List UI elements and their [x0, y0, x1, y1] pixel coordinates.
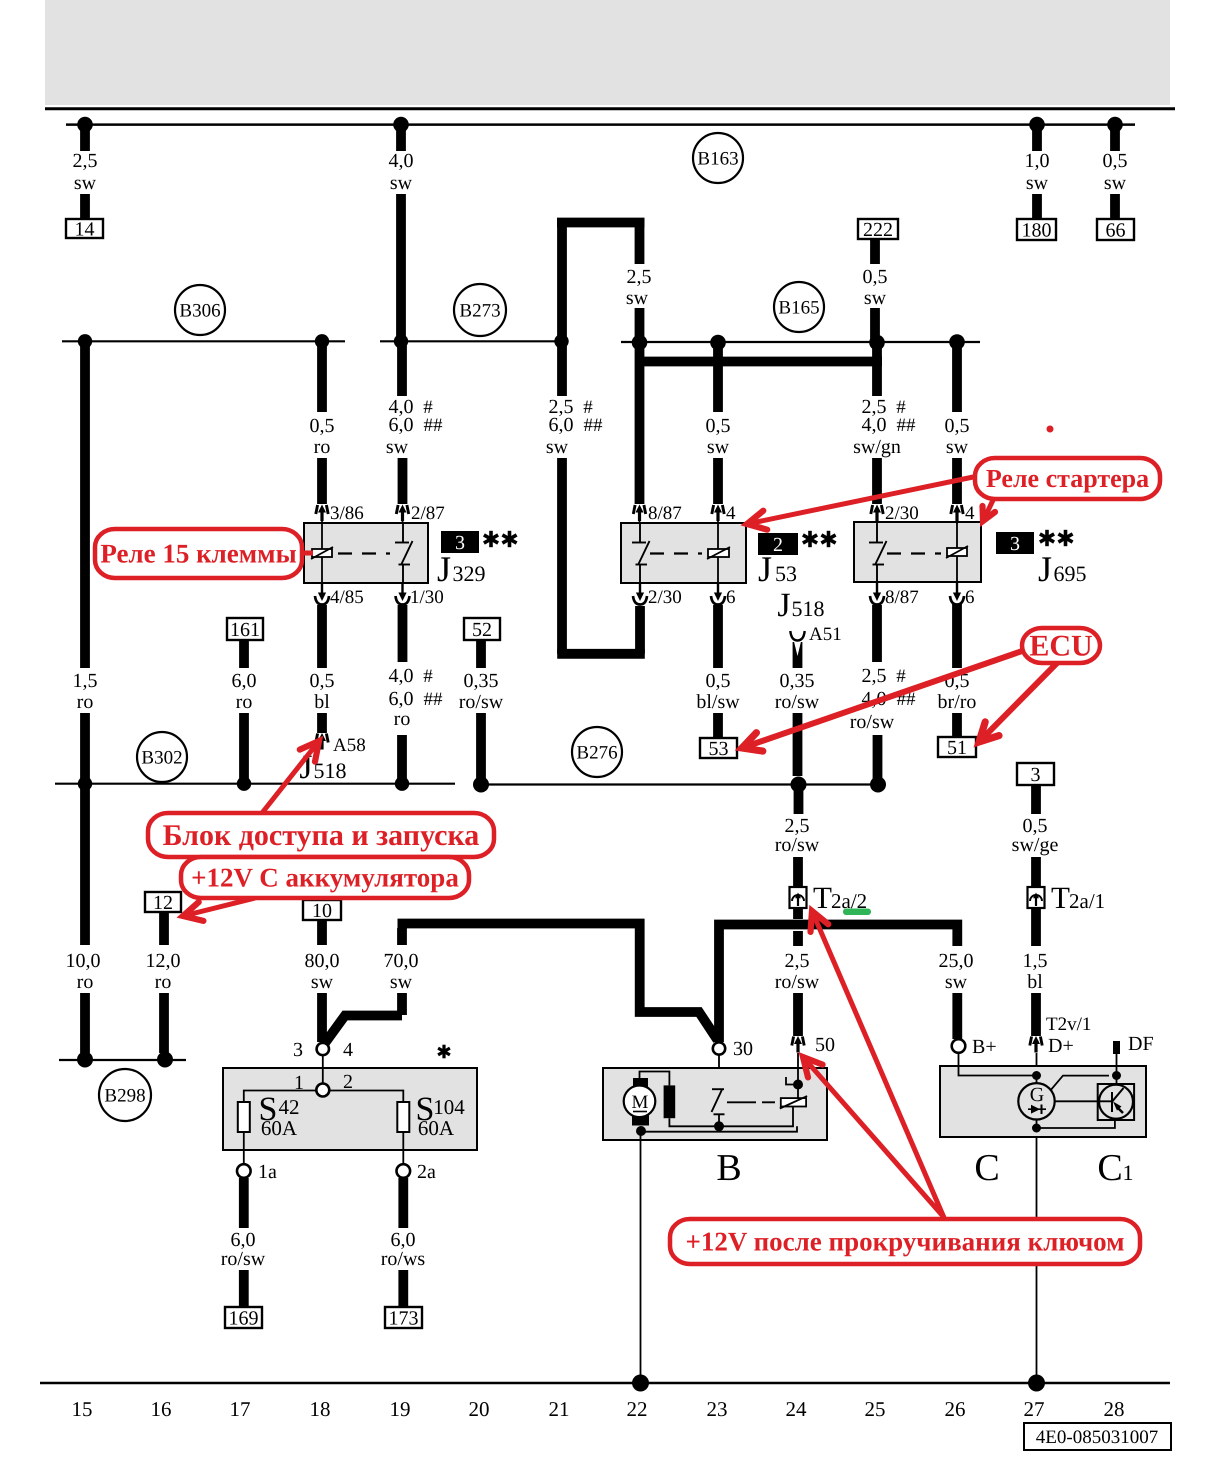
junction x718/B165 [710, 335, 726, 351]
svg-text:0,5: 0,5 [706, 415, 731, 437]
wire 0,5 sw from terminal 222 to node B165 [870, 239, 880, 264]
svg-text:2/30: 2/30 [885, 503, 919, 524]
junction x322/B306 [315, 334, 329, 348]
svg-text:ro: ro [77, 971, 94, 993]
svg-text:1,0: 1,0 [1025, 150, 1050, 172]
svg-text:2a: 2a [417, 1161, 436, 1183]
terminal 10 [303, 900, 341, 920]
node B276 [572, 727, 622, 777]
junction starter ground [632, 1375, 649, 1392]
svg-text:60A: 60A [261, 1116, 298, 1140]
svg-text:sw: sw [546, 436, 569, 458]
annotation ECU [742, 650, 1025, 751]
svg-text:50: 50 [815, 1034, 835, 1056]
node B306 [175, 285, 225, 335]
svg-text:sw: sw [1104, 172, 1127, 194]
ground rail [40, 1382, 1170, 1385]
svg-text:ro/sw: ro/sw [775, 691, 820, 713]
annotation +12V after key crank [811, 911, 944, 1217]
svg-text:sw: sw [311, 971, 334, 993]
pin 1/30 [396, 583, 410, 605]
svg-text:0,35: 0,35 [464, 670, 499, 692]
terminal 161 [227, 618, 263, 640]
svg-text:14: 14 [75, 218, 95, 240]
wire 0,35 ro/sw from A51 to node B276 [793, 642, 803, 668]
svg-text:3: 3 [293, 1039, 303, 1061]
svg-text:T: T [813, 880, 832, 915]
svg-text:60A: 60A [418, 1116, 455, 1140]
terminal 3 [1017, 763, 1054, 785]
svg-text:B273: B273 [459, 300, 500, 321]
svg-text:ro: ro [314, 436, 331, 458]
svg-text:17: 17 [230, 1397, 251, 1421]
svg-text:4/85: 4/85 [330, 587, 364, 608]
pin 4 [712, 505, 724, 522]
svg-text:8/87: 8/87 [648, 503, 682, 524]
junction generator ground [1028, 1375, 1045, 1392]
svg-text:ro: ro [77, 691, 94, 713]
wire 12,0 ro [159, 912, 169, 945]
svg-text:ro/sw: ro/sw [459, 691, 504, 713]
pin 6 [950, 583, 964, 605]
svg-text:2,5: 2,5 [627, 266, 652, 288]
svg-text:53: 53 [775, 561, 797, 586]
svg-text:26: 26 [945, 1397, 966, 1421]
svg-text:br/ro: br/ro [938, 691, 977, 713]
terminal 53 [700, 738, 737, 758]
generator internal wiring [959, 1053, 1037, 1076]
svg-text:2,5: 2,5 [73, 150, 98, 172]
wire top plus-bus [66, 123, 1135, 126]
svg-text:B276: B276 [576, 742, 617, 763]
wire 0,5 sw to J53 pin 4 [713, 343, 723, 413]
red dot [1047, 426, 1054, 433]
wire 80,0 sw from terminal 10 to fuse pin 3 [317, 920, 327, 945]
wire thick bus to B+ [719, 925, 957, 1043]
wire 0,5 br/ro from J695 pin 6 to terminal 51 [952, 604, 962, 668]
wire 0,5 sw/ge from terminal 3 to T2a/1 [1031, 785, 1041, 814]
junction DF [1112, 1071, 1121, 1080]
junction x957/B165 [949, 334, 965, 350]
svg-text:1,5: 1,5 [73, 670, 98, 692]
wire 0,5 bl/sw from J53 pin 6 to terminal 53 [713, 605, 723, 668]
terminal 66 [1097, 219, 1134, 240]
svg-text:B298: B298 [104, 1085, 145, 1106]
svg-text:695: 695 [1054, 561, 1087, 586]
wire 0,5 sw to J695 pin 4 [952, 342, 962, 412]
svg-text:169: 169 [229, 1307, 259, 1329]
generator terminal B+ [952, 1039, 966, 1053]
wire 4,0/6,0 sw to J329 pin 2/87 [397, 341, 407, 396]
svg-text:B+: B+ [972, 1036, 997, 1058]
svg-text:4,0: 4,0 [862, 414, 887, 436]
svg-text:Блок доступа и запуска: Блок доступа и запуска [163, 819, 480, 852]
junction dot starter switch bottom [714, 1121, 724, 1131]
svg-text:27: 27 [1024, 1397, 1045, 1421]
pin 3/86 [316, 505, 328, 522]
wire 10,0 ro [80, 784, 90, 945]
svg-text:25: 25 [865, 1397, 886, 1421]
svg-text:J: J [1038, 549, 1052, 589]
junction D+ [1032, 1071, 1041, 1080]
svg-text:sw: sw [945, 971, 968, 993]
fuse links [244, 1091, 403, 1103]
wire 2,5/4,0 ro/sw from J695 pin 8/87 to node B276 [872, 605, 882, 662]
junction x640/B165 [632, 335, 648, 351]
wire 1,5 bl from T2a/1 to generator D+ [1031, 908, 1041, 946]
node line B306 [62, 340, 345, 342]
svg-text:0,5: 0,5 [863, 266, 888, 288]
starter series winding [664, 1085, 676, 1118]
svg-text:ro/sw: ro/sw [221, 1248, 266, 1270]
svg-text:ro: ro [236, 691, 253, 713]
svg-text:180: 180 [1022, 219, 1052, 241]
svg-text:sw: sw [1026, 172, 1049, 194]
junction x85/B298 [77, 1052, 93, 1068]
svg-text:D+: D+ [1048, 1035, 1074, 1057]
svg-text:20: 20 [469, 1397, 490, 1421]
wire generator ground [1036, 1137, 1038, 1383]
svg-text:51: 51 [947, 737, 967, 759]
svg-text:1/30: 1/30 [410, 587, 444, 608]
node B298 [99, 1069, 151, 1121]
svg-text:sw: sw [864, 287, 887, 309]
junction dot solenoid [793, 1080, 803, 1090]
svg-text:Реле 15 клеммы: Реле 15 клеммы [100, 538, 296, 568]
svg-text:##: ## [584, 415, 604, 436]
svg-text:0,5: 0,5 [706, 670, 731, 692]
svg-text:sw: sw [386, 436, 409, 458]
terminal 222 [858, 219, 898, 239]
generator G symbol [1018, 1083, 1054, 1119]
svg-text:G: G [1030, 1084, 1044, 1106]
svg-text:518: 518 [314, 758, 347, 783]
svg-text:##: ## [424, 689, 444, 710]
generator C with regulator C1 [940, 1066, 1146, 1137]
pin 8/87 [633, 505, 645, 522]
header gray bar [45, 0, 1170, 105]
node B163 [693, 133, 743, 183]
svg-text:##: ## [897, 415, 917, 436]
svg-text:2/30: 2/30 [648, 587, 682, 608]
pin 8/87 [870, 583, 884, 605]
svg-text:A51: A51 [809, 624, 842, 645]
starter internal wiring [640, 1072, 670, 1086]
wire 6,0 ro from terminal 161 to node B302 [239, 640, 249, 668]
node line B273 [380, 340, 565, 342]
relay J329 code box 3 [441, 531, 479, 553]
svg-text:52: 52 [472, 619, 492, 641]
wire 6,0 ro/sw to terminal 169 [239, 1178, 249, 1228]
svg-text:4: 4 [965, 503, 975, 524]
relay J695 code box 3 [996, 532, 1034, 554]
node line B165 [621, 341, 980, 343]
svg-text:B163: B163 [697, 148, 738, 169]
node B273 [454, 284, 506, 336]
svg-text:ro: ro [394, 708, 411, 730]
annotation +12V from battery [183, 898, 255, 921]
svg-text:bl/sw: bl/sw [696, 691, 740, 713]
node line B302 [55, 783, 455, 785]
wire 2,5/6,0 sw from loop to J53 pin 2/30 [557, 341, 567, 396]
junction x797/B276 [791, 777, 807, 793]
svg-text:4E0-085031007: 4E0-085031007 [1036, 1427, 1158, 1448]
svg-text:bl: bl [314, 691, 330, 713]
junction x402/B302 [395, 777, 409, 791]
wire 2,5 ro/sw from node B276 to T2a/2 [794, 785, 804, 815]
wire 2,5/4,0 sw/gn to J695 pin 2/30 [872, 343, 882, 397]
junction x877/B276 [870, 777, 886, 793]
annotation access/start module [262, 741, 319, 813]
svg-text:1: 1 [1123, 1160, 1134, 1185]
pin 2/87 [396, 505, 408, 522]
wire 2,5 sw top loop [557, 218, 645, 228]
wire starter ground [640, 1132, 642, 1383]
svg-text:4: 4 [726, 503, 736, 524]
junction x164/B298 [157, 1052, 173, 1068]
svg-text:sw/ge: sw/ge [1012, 834, 1059, 856]
svg-text:+12V С аккумулятора: +12V С аккумулятора [191, 862, 459, 892]
wire 1,5 ro [80, 341, 90, 668]
svg-text:T2v/1: T2v/1 [1046, 1014, 1091, 1035]
svg-text:6,0: 6,0 [549, 414, 574, 436]
svg-text:1,5: 1,5 [1023, 950, 1048, 972]
relay J329 (terminal 15 relay) [304, 523, 428, 583]
connector T2a/2 [790, 887, 807, 908]
svg-text:8/87: 8/87 [885, 587, 919, 608]
svg-text:J: J [777, 587, 790, 624]
svg-text:0,5: 0,5 [945, 415, 970, 437]
svg-text:M: M [632, 1092, 649, 1113]
svg-text:sw: sw [946, 436, 969, 458]
wire 0,5 ro to J329 pin 3/86 [317, 341, 327, 412]
svg-text:C: C [974, 1147, 999, 1189]
svg-text:16: 16 [151, 1397, 172, 1421]
svg-text:sw: sw [74, 172, 97, 194]
terminal 180 [1017, 219, 1056, 240]
svg-text:ro/sw: ro/sw [775, 834, 820, 856]
svg-text:ro/ws: ro/ws [381, 1248, 426, 1270]
svg-text:C: C [1097, 1147, 1122, 1189]
svg-text:DF: DF [1128, 1033, 1154, 1055]
connector T2a/1 [1028, 887, 1045, 908]
svg-text:#: # [423, 666, 433, 687]
node line B298 [59, 1059, 186, 1061]
wire 70,0 sw from fuse pin 4 up over to starter terminal 30 [397, 928, 407, 945]
junction x85/B302 [78, 777, 92, 791]
pin 4/85 [315, 583, 329, 605]
node top bus junction x401 [393, 117, 409, 133]
svg-text:sw: sw [707, 436, 730, 458]
junction x85/B306 [78, 334, 92, 348]
fuse pin 1/2 [316, 1084, 329, 1097]
annotation relay-15 [295, 551, 313, 556]
svg-text:66: 66 [1106, 219, 1126, 241]
svg-text:1a: 1a [258, 1161, 277, 1183]
pin 4 [951, 505, 963, 522]
svg-text:2,5: 2,5 [862, 665, 887, 687]
svg-text:T: T [1051, 880, 1070, 915]
svg-text:3: 3 [1010, 533, 1020, 555]
junction x562/B273 [554, 334, 568, 348]
svg-text:+12V после прокручивания ключо: +12V после прокручивания ключом [685, 1226, 1124, 1256]
node line B276 [481, 783, 878, 785]
svg-text:B306: B306 [179, 300, 220, 321]
fuse S104 60A [397, 1102, 409, 1132]
junction x401/B273 [394, 334, 408, 348]
terminal 14 [66, 219, 103, 238]
svg-text:173: 173 [389, 1307, 419, 1329]
svg-text:24: 24 [786, 1397, 808, 1421]
wire 2,5 ro/sw from T2a/2 to starter terminal 50 [793, 908, 803, 919]
node top bus junction x85 [77, 117, 93, 133]
terminal 52 [464, 618, 500, 640]
svg-text:22: 22 [627, 1397, 648, 1421]
svg-text:30: 30 [733, 1038, 753, 1060]
svg-text:ro/sw: ro/sw [850, 711, 895, 733]
svg-text:6: 6 [965, 587, 975, 608]
svg-text:3/86: 3/86 [330, 503, 364, 524]
svg-text:23: 23 [707, 1397, 728, 1421]
svg-text:19: 19 [390, 1397, 411, 1421]
svg-text:J: J [758, 549, 772, 589]
svg-text:2/87: 2/87 [411, 503, 445, 524]
svg-text:80,0: 80,0 [305, 950, 340, 972]
svg-text:161: 161 [230, 619, 260, 641]
junction x877/B165 [869, 335, 885, 351]
svg-text:28: 28 [1104, 1397, 1125, 1421]
connector J518/A58 [316, 733, 328, 750]
generator bottom junction [1036, 1120, 1038, 1129]
relay J695 (starter relay 2) [854, 522, 981, 583]
svg-text:329: 329 [453, 561, 486, 586]
svg-text:sw: sw [626, 287, 649, 309]
svg-text:B: B [716, 1147, 741, 1189]
wire 0,5 bl from J329 pin 4/85 to J518 pin A58 [317, 605, 327, 668]
wire 0,35 ro/sw from terminal 52 to node B276 [476, 640, 486, 668]
node B302 [137, 732, 187, 782]
terminal 173 [385, 1307, 422, 1328]
terminal 12 [145, 892, 181, 912]
node top bus junction x1115 [1107, 117, 1123, 133]
starter motor B [603, 1068, 827, 1140]
junction x244/B302 [237, 777, 251, 791]
svg-text:4,0: 4,0 [389, 665, 414, 687]
svg-text:6,0: 6,0 [232, 670, 257, 692]
svg-text:6,0: 6,0 [389, 688, 414, 710]
svg-text:#: # [896, 666, 906, 687]
svg-text:0,35: 0,35 [780, 670, 815, 692]
wire 4,0/6,0 ro from J329 pin 1/30 to node B302 [398, 605, 408, 662]
svg-text:25,0: 25,0 [939, 950, 974, 972]
annotation starter relay [747, 476, 978, 530]
svg-text:6: 6 [726, 587, 736, 608]
node B165 [774, 282, 824, 332]
svg-text:0,5: 0,5 [310, 415, 335, 437]
svg-text:B302: B302 [141, 747, 182, 768]
svg-text:3: 3 [1031, 764, 1041, 786]
svg-text:10,0: 10,0 [66, 950, 101, 972]
pin 2/30 [871, 505, 883, 522]
svg-text:0,5: 0,5 [310, 670, 335, 692]
wire 0,5 sw to terminal 66 [1110, 125, 1120, 151]
svg-text:12: 12 [153, 892, 173, 914]
regulator K (C1) [1098, 1084, 1134, 1120]
starter pin 50 [792, 1036, 804, 1053]
svg-text:4,0: 4,0 [389, 150, 414, 172]
pin 2/30 [633, 583, 647, 605]
svg-text:Реле стартера: Реле стартера [986, 464, 1149, 493]
wire 1,0 sw to terminal 180 [1032, 125, 1042, 151]
svg-text:70,0: 70,0 [384, 950, 419, 972]
starter contact switch [712, 1088, 724, 1090]
pin 6 [711, 583, 725, 605]
svg-text:2: 2 [773, 534, 783, 556]
wire 2,5 sw to terminal 14 [80, 125, 90, 151]
svg-text:B165: B165 [778, 297, 819, 318]
fuse S42 60A [238, 1102, 250, 1132]
svg-text:0,5: 0,5 [1103, 150, 1128, 172]
starter terminal 30 [713, 1042, 725, 1054]
relay J53 (starter relay) [621, 523, 746, 583]
green mark under 2a/2 [843, 909, 871, 916]
wire 6,0 ro/ws to terminal 173 [398, 1178, 408, 1228]
svg-text:sw: sw [390, 172, 413, 194]
svg-text:2a/1: 2a/1 [1069, 889, 1105, 913]
svg-text:3: 3 [455, 532, 465, 554]
starter motor M [633, 1078, 648, 1089]
fuse pin 1a [237, 1164, 251, 1178]
svg-text:bl: bl [1027, 971, 1043, 993]
terminal 169 [225, 1307, 262, 1328]
svg-text:12,0: 12,0 [146, 950, 181, 972]
svg-text:21: 21 [549, 1397, 570, 1421]
wire 2,5/4,0 link bus below B165 [635, 357, 882, 367]
fuse pin 3/4 [317, 1043, 329, 1055]
svg-text:ro: ro [155, 971, 172, 993]
junction dot motor minus [636, 1126, 646, 1136]
svg-text:A58: A58 [333, 735, 366, 756]
wire to J53 pin 8/87 [635, 343, 645, 505]
generator pin D+ [1030, 1036, 1042, 1053]
starter solenoid coil [797, 1068, 799, 1098]
svg-text:ECU: ECU [1029, 629, 1092, 662]
terminal 51 [938, 737, 976, 757]
svg-text:4: 4 [343, 1039, 353, 1061]
svg-text:ro/sw: ro/sw [775, 971, 820, 993]
svg-text:18: 18 [310, 1397, 331, 1421]
diagram number box 4E0-085031007 [1024, 1423, 1171, 1450]
relay J53 code box 2 [758, 533, 798, 555]
junction x481/B276 [473, 777, 489, 793]
svg-text:6,0: 6,0 [389, 414, 414, 436]
svg-text:##: ## [424, 415, 444, 436]
svg-text:15: 15 [72, 1397, 93, 1421]
svg-text:sw: sw [390, 971, 413, 993]
svg-text:222: 222 [863, 219, 893, 241]
connector J518/A51 [790, 631, 804, 641]
fusebox S42/S104 [223, 1068, 477, 1150]
node top bus junction x1037 [1029, 117, 1045, 133]
DF pin [1113, 1041, 1120, 1054]
svg-text:J: J [437, 549, 451, 589]
wire 4,0 sw from plus-bus down to node B273 [396, 125, 406, 151]
svg-text:53: 53 [709, 738, 729, 760]
svg-text:2,5: 2,5 [785, 950, 810, 972]
svg-text:10: 10 [312, 900, 332, 922]
svg-text:518: 518 [792, 596, 825, 621]
svg-text:sw/gn: sw/gn [853, 436, 901, 458]
